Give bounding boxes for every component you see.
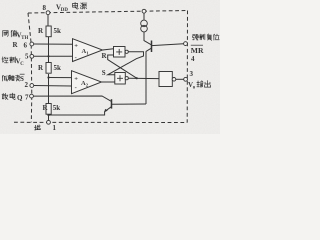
svg-text:2: 2 [25,81,29,89]
svg-text:5k: 5k [53,104,61,112]
svg-text:TH: TH [21,36,28,41]
svg-text:5: 5 [25,53,29,61]
svg-text:1: 1 [53,124,57,132]
svg-text:5k: 5k [54,64,62,72]
svg-text:6: 6 [24,42,28,50]
svg-text:S: S [102,69,106,77]
svg-text:4: 4 [191,55,195,63]
svg-text:S: S [20,75,24,83]
svg-text:-: - [75,85,77,92]
svg-text:3: 3 [190,70,194,78]
svg-text:5k: 5k [54,27,62,35]
svg-text:Q: Q [17,94,23,102]
svg-text:+: + [74,43,78,50]
svg-text:+: + [74,75,78,82]
svg-text:-: - [75,54,77,61]
svg-text:DD: DD [61,8,69,13]
svg-text:8: 8 [43,4,47,12]
svg-text:7: 7 [25,94,29,102]
svg-text:C: C [20,62,24,67]
svg-text:MR: MR [191,46,204,55]
